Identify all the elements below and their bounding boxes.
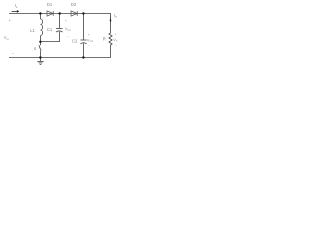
svg-text:−: − [115,44,117,48]
svg-text:−: − [12,51,15,56]
svg-text:D2: D2 [71,2,77,7]
svg-text:+: + [88,33,90,37]
svg-text:C1: C1 [47,27,53,32]
svg-text:Io: Io [114,13,117,19]
svg-text:−: − [67,35,69,39]
svg-text:+: + [9,18,12,23]
svg-text:Vo: Vo [113,38,118,43]
svg-text:S: S [34,47,37,51]
svg-text:D1: D1 [47,2,53,7]
svg-text:VC2: VC2 [87,38,94,43]
svg-text:+: + [114,32,116,36]
svg-text:−: − [88,44,90,48]
svg-text:L1: L1 [30,28,35,33]
svg-text:+: + [65,19,67,23]
svg-text:R: R [103,36,106,41]
svg-text:C2: C2 [72,39,78,44]
svg-text:VC1: VC1 [65,27,72,32]
svg-text:Vin: Vin [4,35,9,41]
svg-text:IL: IL [15,3,18,9]
